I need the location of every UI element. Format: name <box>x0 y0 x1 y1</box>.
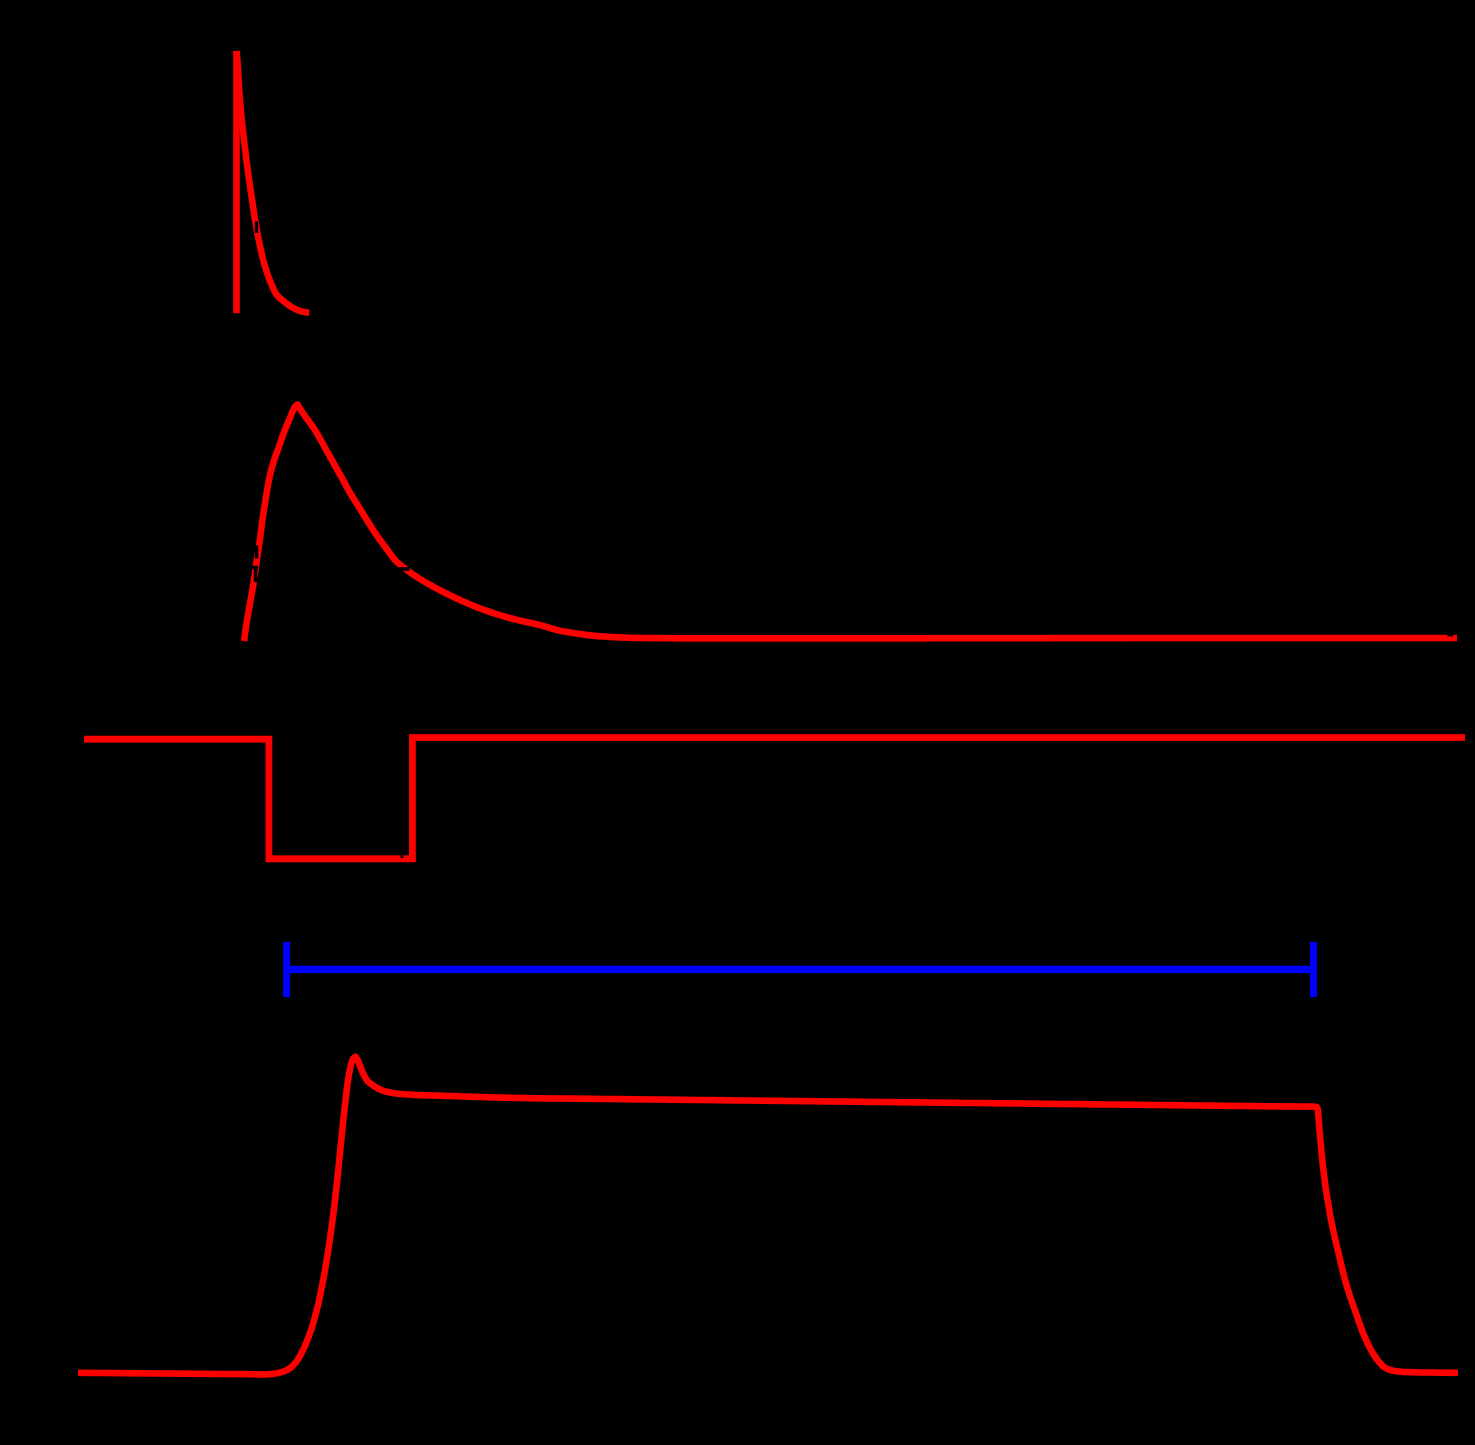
black text overlap notch on trace 2 decay <box>395 567 410 571</box>
trace 4: membrane voltage response <box>78 1057 1458 1375</box>
trace 2: alpha-function synaptic conductance curve <box>244 404 1457 641</box>
trace 3: injected current pulse polyline <box>84 738 1465 859</box>
black text overlap notch on trace 3 pulse bottom <box>401 856 404 859</box>
black text overlap nick on trace 2 right end <box>1448 635 1454 637</box>
blue measurement interval bar: left cap <box>283 942 290 997</box>
black text overlap notches on trace 2 rising edge <box>255 545 258 558</box>
black text overlap notch on trace 1 decay curve <box>255 222 258 234</box>
trace 1: synaptic conductance, instantaneous rise line <box>233 51 240 313</box>
trace 1: synaptic conductance, exponential decay curve <box>237 51 310 313</box>
blue measurement interval bar: right cap <box>1310 942 1317 997</box>
blue measurement interval bar: horizontal span <box>287 966 1314 973</box>
